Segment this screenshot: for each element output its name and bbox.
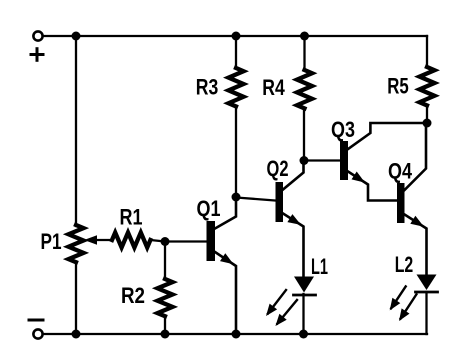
wire node to Q1 base [165,240,207,242]
svg-text:Q2: Q2 [267,156,289,181]
junction bottom L1 [299,330,308,339]
junction bottom Q1 emitter [232,330,241,339]
svg-text:Q4: Q4 [388,159,413,184]
wire R2 to bottom rail [164,316,166,334]
svg-text:R4: R4 [262,75,285,100]
wire right top drop to R5 [426,36,428,67]
svg-text:Q3: Q3 [331,117,355,142]
svg-text:L2: L2 [395,252,414,277]
junction bottom R2 [161,330,170,339]
junction top R3 [232,32,241,41]
node A junction R3/Q1 collector/Q2 base [232,193,241,202]
potentiometer P1 [69,225,84,262]
LED L1 [294,277,316,335]
L1 light arrow 2 [275,300,297,326]
svg-text:L1: L1 [311,254,328,279]
wire P1 wiper to R1 [95,239,112,241]
transistor Q3 [340,123,427,201]
wire top rail [43,35,428,37]
label + sign [31,49,43,61]
transistor Q4 [397,123,427,275]
node C junction R5/Q3 collector/Q4 collector [423,119,432,128]
svg-text:R3: R3 [196,75,219,100]
svg-text:R2: R2 [121,283,145,308]
wire R1 to node [150,240,165,242]
resistor R2 [158,279,173,316]
junction bottom left rail [72,330,81,339]
wire left rail lower [75,262,77,334]
wire node B to Q3 base [304,159,340,161]
transistor Q2 [276,161,304,277]
LED L2 [416,275,438,335]
wire left rail upper [75,36,77,226]
transistor Q1 [207,197,237,334]
node B junction R4/Q2 collector/Q3 base [300,156,309,165]
junction top-left [72,32,81,41]
L1 light arrow 1 [266,290,286,316]
L2 light arrow 2 [399,294,416,321]
junction top R4 [300,32,309,41]
P1 wiper arrow [84,235,97,245]
resistor R4 [297,36,312,161]
svg-text:P1: P1 [41,229,62,254]
wire node A to Q2 base [236,198,276,201]
junction node R1/R2/Q1 [161,237,170,246]
resistor R1 [112,233,150,248]
label - sign [29,319,43,322]
terminal - (negative) [33,329,42,338]
terminal + (positive) [33,31,42,40]
wire node down to R2 [164,242,166,280]
svg-text:R5: R5 [387,74,409,99]
resistor R5 [420,67,435,123]
L2 light arrow 1 [390,286,406,310]
svg-text:Q1: Q1 [197,196,221,221]
wire bottom rail [43,333,428,335]
svg-text:R1: R1 [120,205,143,230]
resistor R3 [229,36,244,197]
